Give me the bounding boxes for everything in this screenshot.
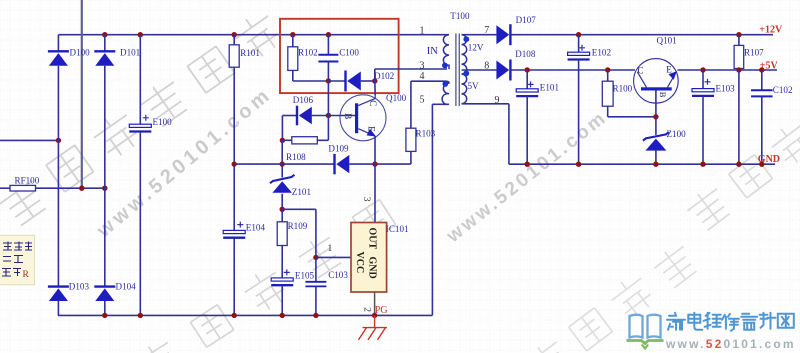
wire E103 top leg: [702, 70, 704, 89]
wire AC bus from top: [81, 0, 83, 188]
logo Chinese text 家电维修资料网: [667, 313, 794, 331]
junction base-Z100 node: [653, 114, 658, 119]
wire R107 top stub: [738, 35, 740, 46]
junction D102-collector node: [372, 78, 377, 83]
svg-text:T100: T100: [450, 11, 470, 21]
resistor R100: [602, 81, 613, 106]
junction R102 top: [290, 32, 295, 37]
svg-text:R107: R107: [744, 48, 764, 58]
polarity dot pin3: [442, 63, 448, 69]
svg-text:GND: GND: [366, 257, 377, 279]
diode D100: [48, 51, 69, 65]
svg-text:Z100: Z100: [667, 129, 687, 139]
svg-text:C102: C102: [773, 85, 793, 95]
wire AC line 2 left: [0, 187, 10, 189]
svg-text:D101: D101: [120, 47, 140, 57]
wire D106 anode side: [312, 115, 329, 117]
capacitor C100: [318, 55, 338, 62]
wire D101 cathode stub: [104, 35, 106, 52]
wire R108 right stub: [317, 139, 328, 141]
wire R102 bottom stub: [292, 70, 294, 81]
svg-text:D106: D106: [293, 95, 314, 105]
wire R100 bottom stub: [607, 106, 609, 117]
junction E103 GND: [700, 162, 705, 167]
wire Z101 anode down: [281, 194, 283, 210]
wire to IC101 pin 1: [316, 256, 351, 258]
diode D104: [94, 287, 115, 301]
junction R100 top: [605, 67, 610, 72]
ground PG symbol: [359, 315, 387, 340]
wire pin 9 horizontal: [462, 103, 509, 105]
wire R101 to E104: [233, 67, 235, 230]
junction E101 GND: [525, 162, 530, 167]
wire AC line 2 to bridge: [36, 187, 105, 189]
svg-text:D109: D109: [328, 143, 349, 153]
resistor R107: [734, 45, 744, 68]
svg-text:1: 1: [420, 26, 425, 37]
resistor RF100: [10, 185, 36, 191]
wire to Z101 cathode: [281, 140, 283, 177]
diode D103: [48, 287, 69, 301]
svg-text:C: C: [638, 65, 644, 75]
capacitor E100: [129, 124, 151, 131]
zener Z101: [270, 175, 295, 193]
red highlight frame: [280, 19, 399, 93]
wire D108 to Q101 collector: [511, 69, 635, 71]
junction Z101-R109 node: [280, 207, 285, 212]
capacitor E103: [692, 89, 714, 96]
wire R107 bottom stub: [738, 69, 740, 71]
polarity dot pin8: [463, 70, 469, 76]
junction AC1-bridge: [56, 138, 61, 143]
wire pin 8 to D108: [462, 69, 497, 71]
coil primary 4-5: [442, 81, 449, 104]
junction C100 top: [326, 32, 331, 37]
svg-text:2: 2: [362, 307, 372, 312]
svg-text:E: E: [666, 64, 672, 74]
junction C102 GND: [759, 162, 764, 167]
junction pin1-C103 node: [313, 255, 318, 260]
capacitor E104: [223, 230, 245, 237]
diode D109: [335, 154, 350, 174]
svg-text:5: 5: [420, 95, 425, 106]
coil primary 1-3: [443, 35, 449, 69]
logo book icon: [627, 315, 664, 349]
resistor R101: [229, 45, 239, 67]
capacitor C103: [305, 282, 326, 287]
resistor R109: [277, 222, 287, 246]
wire pin 5 horizontal: [432, 103, 447, 105]
wire snubber node to base node: [327, 81, 329, 116]
capacitor E102: [568, 52, 590, 59]
wire C103 top leg: [315, 257, 317, 281]
wire node down to Q100 collector: [374, 81, 376, 95]
junction E105 rail: [280, 313, 285, 318]
junction Z100 GND: [653, 162, 658, 167]
wire E100 top leg: [139, 35, 141, 125]
junction R101-D109 wire: [232, 161, 237, 166]
svg-text:D103: D103: [69, 282, 90, 292]
wire E100 bottom leg: [139, 132, 141, 316]
svg-text:IN: IN: [427, 46, 438, 57]
wire E101 bottom leg: [526, 96, 528, 164]
svg-text:R109: R109: [288, 221, 308, 231]
junction D104 rail: [102, 313, 107, 318]
capacitor E101: [516, 89, 538, 96]
wire top +DC rail: [58, 34, 449, 36]
svg-text:3: 3: [361, 197, 371, 202]
transformer core: [456, 34, 459, 107]
wire C103 bottom leg: [315, 286, 317, 315]
resistor R103: [406, 128, 416, 151]
coil secondary 7-8-9: [462, 35, 467, 104]
zener Z100: [643, 132, 669, 150]
svg-text:E: E: [366, 126, 376, 132]
junction C102 top: [759, 67, 764, 72]
svg-text:R101: R101: [240, 48, 260, 58]
junction E102 top: [576, 32, 581, 37]
wire C102 bottom leg: [761, 96, 763, 164]
junction D101 top: [102, 32, 107, 37]
junction E103 top: [700, 67, 705, 72]
svg-text:R: R: [23, 270, 30, 280]
wire R100 top stub: [607, 70, 609, 81]
svg-text:Z101: Z101: [292, 187, 311, 197]
junction AC2-bus: [79, 186, 84, 191]
wire D106 cathode side: [282, 115, 296, 117]
wire R109 to E105: [281, 246, 283, 278]
wire base of Q100: [328, 115, 355, 117]
junction pin2 rail: [372, 313, 377, 318]
wire up to R103 bottom: [410, 151, 412, 164]
wire C100 bottom leg: [327, 62, 329, 82]
wire +12V rail: [511, 34, 773, 36]
svg-text:D100: D100: [70, 47, 91, 57]
svg-text:D104: D104: [116, 282, 137, 292]
svg-text:RF100: RF100: [15, 175, 40, 185]
wire to transformer pin 3: [375, 68, 447, 70]
wire E102 top leg: [578, 35, 580, 53]
junction emitter-D109: [372, 161, 377, 166]
svg-text:D108: D108: [515, 49, 536, 59]
polarity dot pin7: [463, 36, 469, 42]
svg-text:1: 1: [328, 244, 333, 254]
wire pin 7 to D107: [462, 34, 497, 36]
junction Z101 column-D109 wire: [280, 161, 285, 166]
wire bottom primary return rail: [58, 314, 433, 316]
diode D108: [496, 60, 510, 81]
wire secondary GND rail: [509, 163, 775, 165]
transistor Q101: [634, 59, 679, 104]
svg-text:12V: 12V: [468, 42, 484, 52]
watermark cjk right: [682, 86, 800, 233]
capacitor C102: [751, 90, 773, 96]
wire D100 cathode stub: [57, 35, 59, 52]
wire down to pin1 level: [315, 209, 317, 257]
wire R100 to base node: [608, 116, 656, 118]
wire AC line 1: [0, 139, 58, 141]
wire D100 anode to D103 cathode: [57, 66, 59, 287]
wire R108 up to base node: [327, 116, 329, 141]
wire C102 top leg: [761, 70, 763, 90]
svg-text:4: 4: [420, 71, 425, 82]
wire E101 top leg: [526, 70, 528, 89]
svg-text:B: B: [658, 92, 668, 98]
transistor Q100: [340, 95, 386, 141]
junction R108-Z101 node: [280, 138, 285, 143]
junction R107 +5V: [736, 67, 741, 72]
svg-text:E103: E103: [716, 84, 736, 94]
resistor R102: [288, 47, 298, 71]
svg-text:C103: C103: [328, 270, 348, 280]
op-amp IC101 regulator: [351, 223, 387, 293]
wire node up to pin3 level: [374, 69, 376, 81]
wire Q100 emitter to IC101 pin 3: [374, 136, 376, 223]
svg-text:R100: R100: [613, 84, 633, 94]
wire +5V rail: [678, 69, 778, 71]
note box with Chinese text: [0, 235, 35, 285]
capacitor E105: [271, 278, 293, 285]
wire D104 anode to rail: [104, 301, 106, 315]
svg-text:OUT: OUT: [366, 228, 377, 250]
svg-text:5V: 5V: [468, 81, 480, 91]
wire pin 5 down to rail: [431, 104, 433, 315]
wire transformer pin 4: [411, 80, 446, 82]
wire R102 top stub: [292, 35, 294, 47]
svg-text:www.520101.com: www.520101.com: [665, 337, 796, 351]
svg-text:GND: GND: [758, 154, 780, 165]
svg-text:C100: C100: [339, 48, 359, 58]
junction R107 GND: [736, 162, 741, 167]
watermark cjk bottom-middle: [522, 239, 700, 353]
wire pin 9 down to GND rail: [508, 104, 510, 164]
junction E100 top: [138, 32, 143, 37]
svg-text:PG: PG: [375, 305, 388, 316]
junction E100 rail: [138, 313, 143, 318]
svg-text:Q101: Q101: [657, 36, 677, 46]
junction E102 GND: [576, 162, 581, 167]
wire E103 bottom leg: [702, 96, 704, 164]
wire pin4 down to R103: [410, 81, 412, 128]
svg-text:E104: E104: [246, 223, 266, 233]
junction R101 top: [232, 32, 237, 37]
svg-text:C: C: [368, 100, 378, 106]
wire E102 bottom leg: [578, 60, 580, 165]
polarity dot pin4: [442, 81, 448, 87]
diode D102: [346, 71, 361, 92]
junction base node: [326, 113, 331, 118]
svg-text:IC101: IC101: [386, 224, 409, 234]
svg-text:E101: E101: [540, 83, 559, 93]
wire to Z100 cathode: [655, 117, 657, 135]
diode D101: [94, 51, 115, 65]
svg-text:E102: E102: [592, 47, 612, 57]
junction E104 rail: [232, 313, 237, 318]
wire R109 top stub: [281, 209, 283, 222]
wire R102 to C100 node: [293, 80, 329, 82]
wire D109 cathode side: [234, 163, 334, 165]
junction R107 top: [736, 32, 741, 37]
wire D109 anode to R103: [349, 163, 411, 165]
junction AC2-D101 leg: [102, 186, 107, 191]
wire node to C103 column: [282, 208, 316, 210]
svg-text:E105: E105: [295, 271, 315, 281]
svg-text:R108: R108: [286, 152, 306, 162]
wire R107 column to GND: [738, 70, 740, 164]
svg-text:R102: R102: [298, 48, 318, 58]
watermark cjk bottom-left: [132, 196, 397, 353]
svg-text:3: 3: [420, 60, 425, 71]
wire E105 bottom leg: [281, 285, 283, 315]
resistor R108: [292, 137, 318, 144]
wire D101 anode to D104: [104, 66, 106, 287]
wire Z100 anode to GND: [655, 150, 657, 164]
diode D106: [297, 106, 312, 126]
junction E101 top: [525, 67, 530, 72]
svg-text:Q100: Q100: [386, 93, 407, 103]
wire D103 anode to rail: [57, 301, 59, 315]
wire R108 left stub: [282, 139, 291, 141]
wire C100 top leg: [327, 35, 329, 55]
svg-text:+12V: +12V: [759, 24, 783, 35]
wire Q101 base down: [655, 91, 657, 117]
wire D102 anode: [361, 80, 375, 82]
svg-text:D107: D107: [516, 15, 537, 25]
wire E104 bottom leg: [233, 238, 235, 316]
watermark cjk large top-left: [0, 8, 285, 229]
wire R101 top stub: [233, 35, 235, 45]
wire IC101 pin 2 to rail: [374, 292, 376, 315]
diode D107: [496, 24, 510, 45]
svg-text:E100: E100: [153, 117, 173, 127]
junction C103 rail: [313, 313, 318, 318]
svg-text:VCC: VCC: [354, 252, 365, 274]
wire down to R108 node: [281, 116, 283, 141]
junction snubber node: [326, 78, 331, 83]
wire to D102 cathode: [328, 80, 345, 82]
